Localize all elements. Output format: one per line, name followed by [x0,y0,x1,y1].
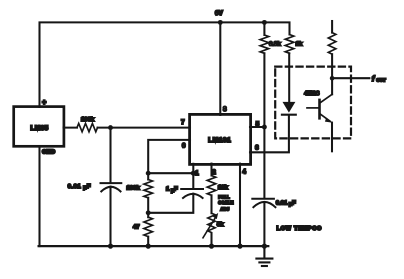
wire bottom ground rail [39,245,269,247]
junction dot C1 at ground rail [108,244,113,249]
svg-text:6V: 6V [215,10,224,17]
resistor R3 47 [144,217,153,236]
svg-text:GND: GND [42,150,55,156]
ground symbol [256,246,272,266]
wire pin5 node down to C3 [263,127,265,198]
svg-text:FULL: FULL [218,195,230,200]
wire node A to pin 1 [148,172,193,174]
svg-text:100k: 100k [81,117,95,123]
svg-text:47: 47 [133,225,140,231]
svg-text:12k: 12k [218,185,229,191]
capacitor C3 0.01uF low tempco [252,199,275,208]
svg-text:7: 7 [181,120,185,126]
LED D1 of 4N28 [283,102,296,113]
transistor Q1 of 4N28 [307,94,332,122]
svg-text:+: + [42,100,46,107]
wire C2 bottom to node B [148,194,193,213]
junction dot fOUT tap [330,76,335,81]
wire R2 leads [147,173,149,213]
svg-text:1k: 1k [296,41,303,47]
wire pin 1 stub [192,164,194,173]
wire emitter down stub [331,123,333,152]
resistor R4 12k [207,176,216,196]
wire pin 3 to LED cathode [250,116,289,152]
wire junction down to C1 [109,128,111,183]
wire LM35 GND to ground rail [38,146,40,246]
junction dot node A [146,171,151,176]
junction node at C1 top [108,125,113,130]
svg-text:0.01 μF: 0.01 μF [276,200,296,207]
resistor R1 100k input [77,123,98,131]
wire pull-up top stub [331,21,333,33]
svg-text:1 μF: 1 μF [166,187,178,194]
junction dot pin 5 node [262,125,267,130]
wire pot to ground rail [210,233,212,246]
svg-text:2: 2 [212,170,216,176]
svg-text:5k: 5k [217,222,224,228]
wire pin 6 left and down [148,140,190,173]
svg-text:0.01 μF: 0.01 μF [68,184,91,191]
svg-text:4: 4 [243,169,247,175]
svg-text:f: f [372,76,375,83]
wire collector up through resistor to stub [331,54,333,94]
wire 6.8k leads [263,22,265,127]
wire 12k to pot [210,195,212,213]
wire R3 leads [147,213,149,246]
wire top 6V rail with left drop to LM35 and right drop to 1k [40,22,290,107]
wire fOUT [332,77,369,79]
svg-text:8: 8 [223,107,227,113]
svg-text:100k: 100k [126,186,140,192]
junction dot C3 at ground rail [262,244,267,249]
resistor R6 6.8k [260,35,269,53]
junction dot 6.8k branch on 6V rail [262,20,267,25]
svg-text:LOW TEMPCO: LOW TEMPCO [277,226,322,232]
svg-text:6.8k: 6.8k [269,41,281,47]
junction dot pin4 at ground rail [237,244,242,249]
wire pin1 node down to C2 [192,173,194,189]
wire C1 to ground rail [109,187,111,247]
potentiometer R5 5k [208,213,215,232]
resistor R8 pull-up (unlabeled) [328,33,336,55]
junction dot R3 at ground rail [146,244,151,249]
junction dot pin8 branch on 6V rail [218,20,223,25]
svg-text:4N28: 4N28 [304,91,320,97]
wire pin 8 to 6V rail [219,22,221,115]
svg-text:OUT: OUT [376,78,386,83]
IC U2 LM131 box [190,114,251,164]
sensor U1 LM35 box [14,107,64,147]
resistor R7 1k [285,35,294,54]
svg-text:3: 3 [255,146,259,152]
svg-text:1: 1 [195,171,199,177]
wire LM35 output to resistor [64,127,78,129]
capacitor C1 0.01uF [101,183,122,191]
svg-text:SCALE: SCALE [218,200,233,205]
wire resistor to LM131 pin 7 [98,127,191,129]
pot wiper arrow [203,217,216,238]
svg-text:6: 6 [182,144,186,150]
junction dot at pin 1 [191,171,196,176]
wire 1k to LED anode [288,53,290,102]
wire pin 5 to timing node [250,126,264,128]
junction dot pot at ground rail [209,244,214,249]
wire pin 2 stub [210,164,212,176]
label FULL SCALE ADJ [218,195,233,212]
junction dot node B [146,210,151,215]
wire pin 4 to ground rail [239,164,241,247]
wire C3 to ground rail [263,202,265,246]
optocoupler U3 4N28 dashed outline [275,67,351,139]
svg-text:LM35: LM35 [31,125,49,132]
svg-text:ADJ: ADJ [220,207,229,212]
svg-text:LM131: LM131 [208,137,231,144]
resistor R2 100k [144,180,153,198]
capacitor C2 1uF [181,189,203,198]
